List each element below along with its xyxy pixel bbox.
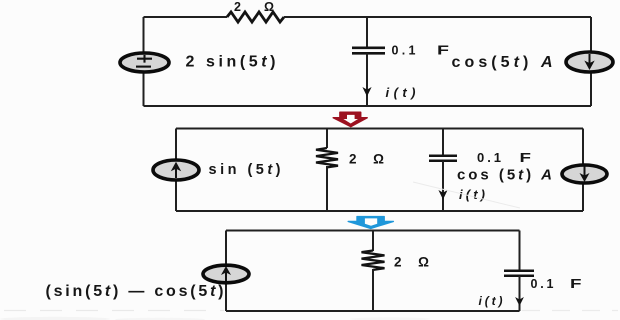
wire: circuit 1 capacitor branch lower with current arrow [362,53,371,106]
source transformation arrow (red, circuit 1 to circuit 2) [333,112,367,126]
capacitor C1 0.1F [352,48,385,54]
wire: circuit 2 resistor branch upper [326,129,328,149]
resistor R1 2Ω (horizontal zigzag) [227,12,284,22]
wire: circuit 1 left wire [143,17,145,106]
scan artifact smudges along bottom edge [0,317,430,320]
capacitor C3 0.1F (on right wire) [504,271,534,276]
label 2 Ω (R2 value) [349,152,384,167]
wire: circuit 1 top wire, left of resistor [144,16,228,18]
svg-text:0.1: 0.1 [531,277,554,291]
scan artifact: faint diagonal scratch inside circuit 2 [413,182,520,208]
label cos(5t) A (I1 value) [452,54,553,71]
svg-text:F: F [437,44,450,58]
voltage source V1 (2 sin(5t)) [120,53,169,72]
svg-text:2 Ω: 2 Ω [349,152,384,167]
label 0.1 F (C2 value) [477,150,531,165]
svg-text:F: F [520,150,532,165]
wire: circuit 2 resistor branch lower [326,166,328,211]
wire: circuit 2 capacitor branch upper [442,129,444,156]
svg-text:2 Ω: 2 Ω [234,0,274,14]
wire: circuit 3 top wire [226,230,520,232]
svg-text:2 Ω: 2 Ω [394,255,429,270]
svg-text:F: F [570,277,582,291]
label i(t) (circuit 1) [386,85,416,100]
current source I4 ((sin(5t) - cos(5t)), up arrow) [203,265,249,283]
label sin (5t) (I2 value) [209,162,281,178]
wire: circuit 3 resistor branch lower [372,269,374,311]
label (sin(5t) - cos(5t) (I4 value) [46,283,224,300]
wire: circuit 2 bottom wire [176,210,583,212]
label 2 sin(5t) (V1 value) [186,54,276,71]
label cos (5t) A (I3 value) [457,167,552,184]
label 2 Ω (R1 value) [234,0,274,14]
scan artifact: faint table-edge line left and right of circuit 3 bottom wire [4,310,618,312]
current source I3 (cos (5t) A, down arrow) [562,165,607,183]
capacitor C2 0.1F [429,156,457,161]
label 0.1 F (C3 value) [531,277,583,291]
wire: circuit 2 right wire [582,129,584,212]
wire: circuit 2 capacitor branch lower with current arrow [438,161,447,211]
wire: circuit 1 right wire [590,17,592,106]
wire: circuit 1 top wire, right of resistor [284,16,591,18]
svg-text:0.1: 0.1 [392,44,416,58]
current source I1 (cos(5t) A, down arrow) [566,52,613,72]
svg-text:0.1: 0.1 [477,150,501,165]
wire: circuit 2 left wire [175,129,177,212]
wire: circuit 3 resistor branch upper [372,231,374,252]
wire: circuit 2 top wire [176,128,583,130]
svg-text:2 sin(5t): 2 sin(5t) [186,54,276,71]
label 0.1 F (C1 value) [392,44,450,58]
label 2 Ω (R3 value) [394,255,429,270]
resistor R2 2Ω (vertical zigzag) [316,148,338,167]
wire: circuit 1 capacitor branch upper [366,17,368,48]
source transformation arrow (blue, circuit 2 to circuit 3) [348,217,393,229]
resistor R3 2Ω (vertical zigzag) [362,251,385,270]
wire: circuit 3 left wire [225,231,227,312]
wire: circuit 3 bottom wire [226,310,520,312]
wire: circuit 3 right wire upper (above capacitor) [519,231,521,271]
label i(t) (circuit 3) [479,294,503,308]
wire: circuit 1 bottom wire [144,105,592,107]
label i(t) (circuit 2) [459,187,485,202]
wire: circuit 3 right wire lower with current arrow [515,276,524,311]
current source I2 (sin(5t), up arrow) [153,160,199,180]
